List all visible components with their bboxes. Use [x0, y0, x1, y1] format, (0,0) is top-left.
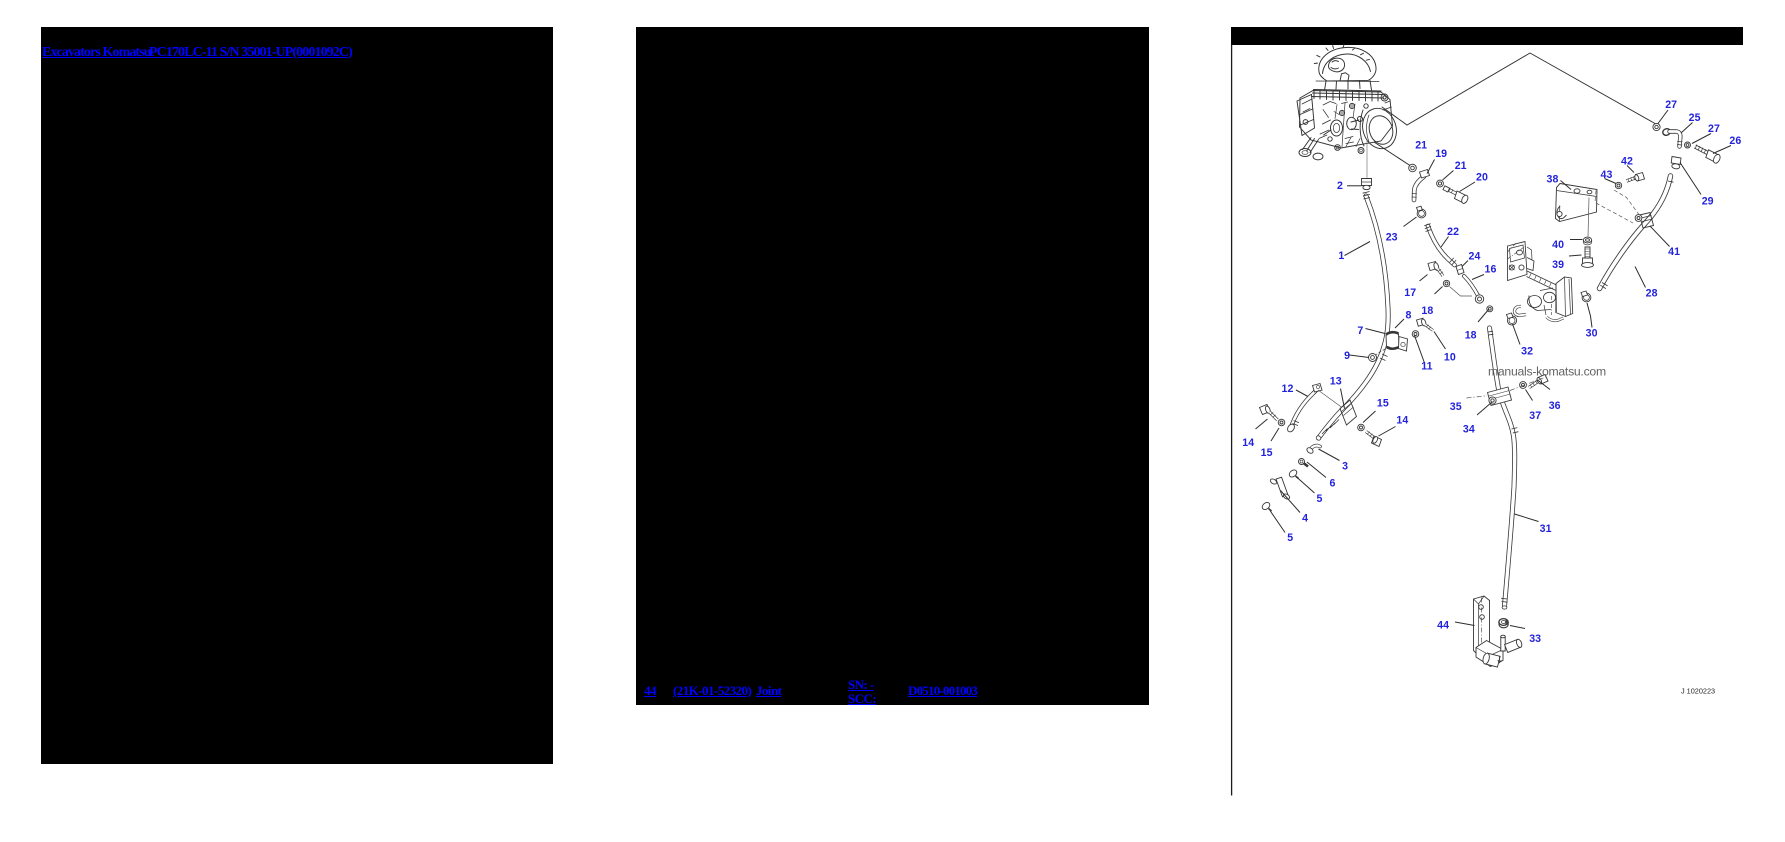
- left black page panel: [41, 27, 553, 764]
- washer 11: [1412, 331, 1419, 338]
- svg-text:33: 33: [1529, 633, 1541, 645]
- ferrule tick marks: [1293, 181, 1674, 602]
- cap 5 (upper): [1288, 469, 1299, 479]
- nut 33: [1499, 619, 1508, 628]
- svg-text:21: 21: [1455, 160, 1467, 172]
- svg-text:16: 16: [1485, 264, 1497, 276]
- clamp 23: [1417, 206, 1426, 218]
- pin on bracket 44: [1501, 637, 1505, 652]
- foot plate of bracket 44: [1476, 641, 1503, 667]
- svg-text:27: 27: [1708, 123, 1720, 135]
- second cylinder (up-right): [1505, 638, 1523, 652]
- right page top black bar: [1231, 27, 1743, 45]
- hose 16: [1464, 276, 1478, 296]
- svg-text:12: 12: [1282, 383, 1294, 395]
- bottom-left stub pipe: [1514, 306, 1526, 315]
- fitting on hose 19: [1420, 170, 1430, 179]
- svg-text:5: 5: [1287, 532, 1293, 544]
- svg-text:10: 10: [1444, 352, 1456, 364]
- hose 34 / 31: [1490, 328, 1515, 609]
- nut 9: [1369, 354, 1377, 362]
- svg-text:7: 7: [1357, 325, 1363, 337]
- right page left border line: [1231, 45, 1233, 796]
- svg-text:32: 32: [1521, 345, 1533, 357]
- bolt 36: [1529, 375, 1548, 388]
- nut 27 (second): [1685, 142, 1691, 148]
- svg-text:27: 27: [1665, 99, 1677, 111]
- svg-text:36: 36: [1549, 400, 1561, 412]
- cap 5 (lower): [1261, 501, 1272, 511]
- step flange: [1527, 258, 1534, 271]
- svg-text:23: 23: [1386, 231, 1398, 243]
- hatch marks on hose 1 near lower end: [1322, 420, 1339, 435]
- svg-text:15: 15: [1261, 447, 1273, 459]
- svg-text:9: 9: [1344, 350, 1350, 362]
- bolt 14 (right): [1366, 432, 1382, 447]
- elbow 3: [1310, 446, 1320, 451]
- svg-text:8: 8: [1406, 310, 1412, 322]
- svg-text:37: 37: [1529, 410, 1541, 422]
- svg-text:3: 3: [1342, 460, 1348, 472]
- bottom right U tube: [1547, 317, 1564, 321]
- connector line from engine to plug 2: [1366, 141, 1368, 178]
- svg-text:19: 19: [1435, 148, 1447, 160]
- svg-text:42: 42: [1621, 156, 1633, 168]
- svg-text:17: 17: [1404, 287, 1416, 299]
- washer 27: [1653, 123, 1660, 130]
- nut 18 (first): [1443, 280, 1449, 286]
- elbow fitting on tube 12 top: [1313, 384, 1323, 393]
- bolt 17: [1428, 262, 1443, 277]
- hose 1: [1315, 196, 1388, 441]
- nut 18 (second): [1487, 306, 1493, 312]
- svg-text:22: 22: [1447, 226, 1459, 238]
- big foot cylinder (down-left): [1482, 652, 1500, 667]
- bolt 26: [1695, 145, 1721, 165]
- bolt 20: [1443, 186, 1469, 205]
- svg-text:14: 14: [1242, 437, 1254, 449]
- clamp 30: [1581, 291, 1591, 302]
- svg-text:13: 13: [1330, 375, 1342, 387]
- bolt 10: [1417, 318, 1434, 330]
- svg-text:15: 15: [1377, 398, 1389, 410]
- ball fitting of hose 16: [1475, 295, 1483, 303]
- svg-text:25: 25: [1689, 112, 1701, 124]
- washer 15 (right): [1358, 424, 1365, 431]
- middle black page panel: [636, 27, 1149, 705]
- svg-text:40: 40: [1552, 239, 1564, 251]
- hose 28: [1600, 176, 1671, 289]
- svg-text:26: 26: [1729, 135, 1741, 147]
- svg-text:14: 14: [1396, 415, 1408, 427]
- nut 43: [1615, 182, 1621, 188]
- svg-text:manuals-komatsu.com: manuals-komatsu.com: [1488, 365, 1606, 379]
- clamp 13 block on hose 1: [1340, 400, 1357, 425]
- svg-text:6: 6: [1330, 477, 1336, 489]
- fitting 6: [1299, 459, 1309, 467]
- svg-text:24: 24: [1469, 251, 1481, 263]
- left mounting plate: [1508, 242, 1528, 281]
- flare at tube 12 bottom: [1286, 423, 1296, 433]
- svg-text:18: 18: [1465, 329, 1477, 341]
- bolt 39: [1582, 247, 1594, 267]
- svg-text:38: 38: [1547, 173, 1559, 185]
- diagonal strap: [1527, 271, 1557, 291]
- tube 4: [1269, 476, 1291, 500]
- svg-text:11: 11: [1421, 361, 1432, 373]
- center cylinders: [1528, 296, 1542, 308]
- svg-text:18: 18: [1421, 305, 1433, 317]
- svg-text:2: 2: [1337, 180, 1343, 192]
- nut 40: [1583, 237, 1591, 245]
- plug 2: [1362, 179, 1372, 190]
- header links on left panel: [42, 45, 151, 61]
- clamp 35 block: [1488, 387, 1512, 406]
- svg-text:1: 1: [1338, 250, 1344, 262]
- washer 21 (first): [1409, 164, 1417, 172]
- hose 22: [1428, 226, 1455, 265]
- svg-text:43: 43: [1601, 169, 1613, 181]
- washer 15 (left): [1278, 419, 1285, 426]
- fitting 29: [1671, 157, 1681, 170]
- svg-text:34: 34: [1463, 423, 1475, 435]
- fitting 3 flange: [1306, 447, 1314, 455]
- svg-text:39: 39: [1552, 259, 1564, 271]
- right box: [1556, 277, 1573, 317]
- svg-text:5: 5: [1317, 493, 1323, 505]
- nut 37: [1520, 382, 1527, 389]
- bottom link row in middle panel: [644, 683, 656, 699]
- clamp 41 on hose 28: [1635, 213, 1653, 229]
- engine assembly (turbo/EGR unit): [1297, 45, 1402, 160]
- nut 21 (second): [1437, 180, 1444, 187]
- pointer roof polyline: [1382, 53, 1655, 125]
- tube 12: [1291, 390, 1317, 428]
- svg-text:29: 29: [1702, 196, 1714, 208]
- svg-text:4: 4: [1302, 513, 1308, 525]
- svg-text:J 1020223: J 1020223: [1681, 686, 1715, 695]
- joint 24: [1456, 265, 1464, 275]
- clamp 32: [1507, 313, 1517, 325]
- svg-text:30: 30: [1586, 327, 1598, 339]
- svg-text:35: 35: [1450, 401, 1462, 413]
- svg-text:44: 44: [1437, 619, 1449, 631]
- clamp 7 with bracket tab: [1375, 332, 1408, 355]
- hose 19: [1412, 177, 1424, 201]
- svg-text:41: 41: [1668, 246, 1680, 258]
- svg-text:20: 20: [1476, 172, 1488, 184]
- bracket 38: [1556, 184, 1598, 222]
- bolt 42: [1627, 173, 1645, 182]
- bolt 14 (left): [1260, 405, 1278, 421]
- svg-text:21: 21: [1415, 139, 1427, 151]
- svg-text:28: 28: [1646, 287, 1658, 299]
- svg-text:31: 31: [1540, 523, 1552, 535]
- elbow 25: [1662, 128, 1682, 147]
